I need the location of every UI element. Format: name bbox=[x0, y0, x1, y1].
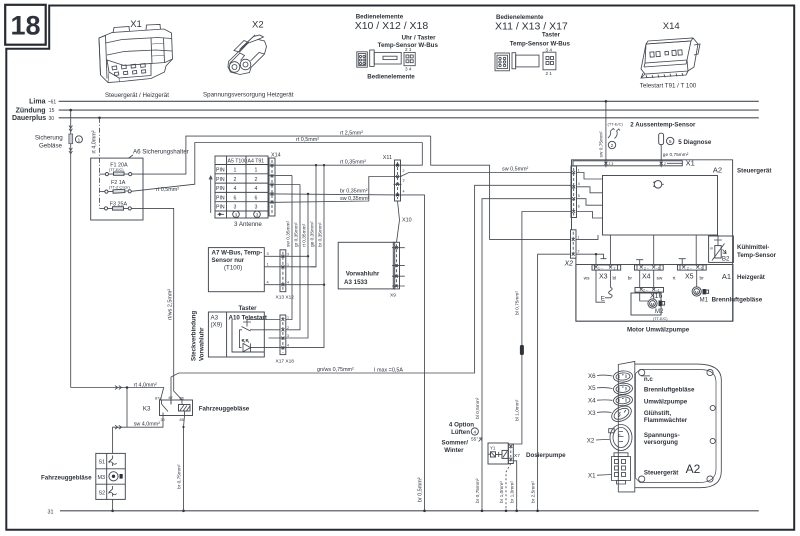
svg-text:X6: X6 bbox=[588, 373, 596, 380]
svg-text:Zündung: Zündung bbox=[16, 107, 46, 114]
svg-text:B2: B2 bbox=[722, 256, 730, 263]
svg-text:rt 4,0mm²: rt 4,0mm² bbox=[92, 130, 98, 153]
svg-text:18: 18 bbox=[10, 11, 40, 41]
svg-text:55°: 55° bbox=[471, 436, 478, 442]
svg-text:sw: sw bbox=[657, 276, 663, 281]
connector strip X1 horizontal on top of A2 bbox=[573, 161, 682, 166]
svg-text:Uhr / Taster: Uhr / Taster bbox=[402, 35, 437, 42]
glow plug E wiring bbox=[596, 270, 605, 302]
wire ge 0,75mm2 diagnose to X1 strip bbox=[660, 145, 662, 161]
wire F2 output rt 0,5mm2 diagonal, up and right bbox=[131, 143, 422, 192]
svg-text:(TT-E/C): (TT-E/C) bbox=[608, 121, 624, 126]
svg-text:1: 1 bbox=[578, 236, 580, 240]
wire relay 85 to ground bus br 0,75mm2 bbox=[184, 416, 185, 511]
svg-text:X11: X11 bbox=[383, 155, 392, 161]
svg-text:A2: A2 bbox=[686, 462, 701, 476]
svg-text:sw 4,0mm²: sw 4,0mm² bbox=[134, 421, 161, 427]
svg-text:br 0,35mm²: br 0,35mm² bbox=[340, 189, 368, 195]
svg-text:A1: A1 bbox=[722, 272, 731, 281]
svg-text:A7 W-Bus, Temp-: A7 W-Bus, Temp- bbox=[212, 250, 263, 257]
svg-text:3: 3 bbox=[287, 252, 289, 256]
svg-text:M2: M2 bbox=[655, 309, 664, 315]
buzzer symbol inside A2 bbox=[654, 181, 662, 189]
svg-text:2 Aussentemp-Sensor: 2 Aussentemp-Sensor bbox=[630, 121, 696, 128]
wire A7 pin3 to junction bbox=[264, 255, 308, 257]
svg-text:4: 4 bbox=[234, 186, 237, 192]
svg-text:rt 0,35mm²: rt 0,35mm² bbox=[301, 223, 307, 247]
junction X11 pin4 bbox=[396, 194, 398, 196]
fuse Sicherung Geblaese bbox=[69, 134, 73, 144]
svg-text:X10 / X12 / X18: X10 / X12 / X18 bbox=[355, 20, 429, 32]
svg-text:sw 0,35mm²: sw 0,35mm² bbox=[340, 196, 370, 202]
svg-text:4: 4 bbox=[287, 281, 289, 285]
svg-text:S2: S2 bbox=[99, 490, 106, 496]
svg-text:Kühlmittel-: Kühlmittel- bbox=[737, 244, 769, 251]
svg-text:(TT-E/C): (TT-E/C) bbox=[653, 317, 668, 321]
wire row3 sw 0,35mm2 to elbow up into X11 pin2 bbox=[276, 177, 398, 203]
wire sw 0,5mm2 from X11 pin2 to A2 X1 strip bbox=[401, 173, 572, 177]
svg-text:br 0,5mm²: br 0,5mm² bbox=[418, 477, 424, 502]
svg-text:Gebläse: Gebläse bbox=[39, 142, 63, 149]
internal wire X2 pin2 ground rail with stub bbox=[576, 254, 607, 259]
svg-text:3: 3 bbox=[287, 334, 289, 338]
connector strip X5 bbox=[678, 265, 707, 270]
connector X1 isometric drawing (Steuergeraet/Heizgeraet plug) bbox=[99, 25, 173, 83]
svg-text:rt 0,5mm²: rt 0,5mm² bbox=[156, 187, 179, 193]
svg-text:A3 1533: A3 1533 bbox=[344, 279, 368, 286]
svg-text:sw 0,5mm²: sw 0,5mm² bbox=[502, 166, 529, 172]
svg-text:A3: A3 bbox=[211, 315, 219, 322]
svg-text:PIN: PIN bbox=[216, 195, 225, 201]
svg-text:M: M bbox=[651, 302, 655, 307]
svg-text:3 4: 3 4 bbox=[546, 48, 553, 53]
internal elbow X2 pin1 to inner box bbox=[576, 235, 598, 239]
wire ground to X3 pin1 bbox=[595, 254, 597, 265]
wire slant X11 to X10 strip bbox=[397, 201, 400, 242]
heater box A1 bbox=[576, 265, 733, 322]
inline splice on bl wire bbox=[520, 345, 524, 355]
svg-text:n.c: n.c bbox=[644, 376, 653, 383]
wire A7 pin1 bbox=[264, 266, 316, 268]
relay contact bbox=[162, 400, 172, 416]
svg-text:Bedienelemente: Bedienelemente bbox=[367, 74, 415, 81]
wires inner box down to strips bbox=[609, 235, 611, 265]
svg-text:(T100): (T100) bbox=[224, 264, 242, 271]
wire option bl 0,5 / br 0,75 from A2 X1 down to ground bus bbox=[482, 199, 571, 511]
callout circle 5 bbox=[667, 137, 674, 144]
stub pin3 bbox=[269, 337, 286, 339]
svg-text:E: E bbox=[601, 296, 605, 303]
glow plug E symbol bbox=[605, 287, 612, 298]
Taster A10 Telestart box bbox=[208, 312, 264, 357]
svg-text:Taster: Taster bbox=[238, 305, 257, 312]
callout circle 4 bbox=[471, 428, 478, 435]
connector strip X2 vertical left side of A2 bbox=[571, 230, 577, 258]
connector X6 (n.c.) bbox=[613, 370, 633, 382]
svg-text:6: 6 bbox=[234, 195, 237, 201]
inner electronics box of A2 bbox=[603, 176, 718, 236]
svg-text:Fahrzeuggebläse: Fahrzeuggebläse bbox=[41, 475, 92, 482]
wire bundle v4 ge 0,35mm2 bbox=[311, 165, 316, 267]
X10/X12/X18 connector icons bbox=[357, 50, 415, 67]
relay coil bbox=[179, 405, 191, 412]
svg-text:3: 3 bbox=[234, 205, 237, 211]
relay K3 box bbox=[160, 400, 193, 416]
svg-text:~61: ~61 bbox=[48, 99, 57, 105]
wire sw 0,75mm2 down to A2 X1 strip bbox=[605, 101, 607, 161]
svg-text:Steuergerät / Heizgerät: Steuergerät / Heizgerät bbox=[105, 92, 169, 99]
svg-text:sw 0,75mm²: sw 0,75mm² bbox=[599, 131, 605, 158]
svg-text:2: 2 bbox=[234, 177, 237, 183]
callout circle 2 bbox=[608, 141, 615, 148]
X14 Telestart remote isometric drawing bbox=[641, 38, 700, 78]
wire rt 4,0mm2 from fan fuse to relay 87a bbox=[71, 388, 164, 400]
connector strip X4 bbox=[635, 265, 664, 270]
ground bus 31 bbox=[60, 510, 759, 512]
connector strip X7 bbox=[508, 444, 513, 464]
X11/X13/X17 connector icons bbox=[495, 52, 556, 71]
svg-text:3 Antenne: 3 Antenne bbox=[234, 221, 262, 228]
wire LED to pin4 bbox=[251, 347, 286, 349]
wire X7 alternative ground dashed br 1,0mm2 bbox=[506, 464, 511, 511]
svg-text:Lima: Lima bbox=[29, 99, 45, 106]
svg-text:Flammwächter: Flammwächter bbox=[644, 417, 688, 424]
pin table A5 T100 / A4 T91 bbox=[215, 156, 268, 218]
thermal switch S2 symbol bbox=[109, 486, 117, 497]
svg-text:Motor Umwälzpumpe: Motor Umwälzpumpe bbox=[627, 327, 690, 334]
connector strip X3 bbox=[592, 265, 621, 270]
wire rt 2,5mm2 corner down then right to A2 X2 pin1 bbox=[431, 136, 571, 239]
svg-text:gn/ws 0,75mm²: gn/ws 0,75mm² bbox=[317, 367, 354, 373]
node tap on Lima for Aussentemp sensor bbox=[605, 100, 608, 103]
pump motor M2 box bbox=[631, 293, 661, 315]
svg-text:br 0,35mm²: br 0,35mm² bbox=[317, 222, 323, 247]
fan motor M3 box bbox=[96, 453, 126, 499]
svg-text:ge 0,35mm²: ge 0,35mm² bbox=[309, 221, 315, 247]
antenna arrow in footer cell bbox=[218, 213, 225, 215]
svg-text:Brennluftgebläse: Brennluftgebläse bbox=[644, 386, 695, 393]
svg-text:Taster: Taster bbox=[542, 32, 561, 39]
svg-text:1: 1 bbox=[287, 316, 289, 320]
stub with T-bar above X5 bbox=[679, 259, 686, 265]
wire X7 pin2 to ground solid br 1,0mm2 bbox=[513, 461, 516, 511]
connector arrows below fuse bbox=[69, 148, 72, 154]
svg-text:2 3: 2 3 bbox=[609, 162, 614, 166]
svg-text:X14: X14 bbox=[271, 153, 281, 159]
svg-text:Sicherung: Sicherung bbox=[35, 134, 63, 141]
svg-text:n: n bbox=[619, 433, 621, 437]
svg-text:(TT-Z C=Gr): (TT-Z C=Gr) bbox=[109, 186, 131, 190]
svg-text:1: 1 bbox=[255, 168, 258, 174]
svg-text:X10: X10 bbox=[402, 218, 412, 224]
svg-text:rt 0,35mm²: rt 0,35mm² bbox=[340, 160, 366, 166]
internal elbow wires X1 strip to inner box bbox=[577, 173, 603, 180]
svg-text:M1: M1 bbox=[700, 298, 709, 304]
wire M3 to ground bus bbox=[112, 499, 114, 510]
svg-text:–1: –1 bbox=[656, 266, 660, 270]
svg-text:(TT-E/C): (TT-E/C) bbox=[109, 168, 124, 172]
svg-text:2: 2 bbox=[403, 169, 405, 173]
svg-text:Steuergerät: Steuergerät bbox=[644, 469, 678, 476]
svg-text:X13 X12: X13 X12 bbox=[276, 295, 295, 301]
svg-text:X4: X4 bbox=[588, 398, 596, 405]
svg-text:30: 30 bbox=[49, 116, 55, 122]
wire rt 4,0mm2 dash-dot from Dauerplus to fuse holder bbox=[99, 118, 101, 209]
X11 pins bbox=[394, 164, 402, 197]
switch (Taster) symbol bbox=[242, 320, 281, 332]
junction on rt 4,0 line bbox=[126, 386, 129, 389]
svg-text:85: 85 bbox=[180, 418, 184, 422]
LED diode symbol bbox=[243, 343, 251, 351]
wire rt 0,5mm2 doubling back into X11 pin1 bbox=[401, 143, 423, 166]
svg-text:A2: A2 bbox=[713, 165, 722, 174]
svg-text:4: 4 bbox=[578, 182, 580, 186]
svg-text:5: 5 bbox=[669, 139, 672, 145]
svg-text:m: m bbox=[710, 247, 713, 251]
svg-text:bl 1,0mm²: bl 1,0mm² bbox=[515, 399, 521, 421]
wire row1 rt 0,35mm2 from X14 strip to X11 pin1 bbox=[276, 164, 398, 166]
svg-text:3: 3 bbox=[256, 212, 259, 217]
control unit A2 box bbox=[572, 160, 733, 321]
wire B2 to inner box bbox=[714, 235, 722, 240]
fuse holder A6 box bbox=[91, 158, 143, 220]
dosing pump Y1 box bbox=[488, 443, 508, 464]
node tap on Zuendung for fan fuse bbox=[69, 109, 72, 112]
svg-text:4: 4 bbox=[473, 430, 476, 436]
bundle junction v5 on row1 bbox=[323, 164, 325, 166]
svg-text:X17 X18: X17 X18 bbox=[276, 359, 295, 365]
svg-text:br 1,0mm²: br 1,0mm² bbox=[499, 481, 505, 503]
svg-text:PIN: PIN bbox=[216, 168, 225, 174]
svg-text:sw 0,35mm²: sw 0,35mm² bbox=[285, 220, 291, 247]
svg-text:A10 Telestart: A10 Telestart bbox=[229, 315, 267, 322]
connector strip X1 vertical left side of A2 bbox=[571, 166, 577, 218]
svg-text:2 –: 2 – bbox=[687, 266, 692, 270]
svg-text:ge 0,75mm²: ge 0,75mm² bbox=[663, 152, 689, 158]
arrow left of table bbox=[209, 176, 212, 213]
svg-text:1: 1 bbox=[578, 169, 580, 173]
svg-text:2: 2 bbox=[614, 266, 616, 270]
wire to LED bbox=[240, 330, 243, 348]
node tap on Dauerplus for A6 bbox=[98, 117, 101, 120]
svg-text:Temp-Sensor: Temp-Sensor bbox=[737, 252, 777, 259]
svg-text:gr 0,35mm²: gr 0,35mm² bbox=[293, 222, 299, 247]
svg-text:X2: X2 bbox=[587, 437, 595, 444]
connector X1b bbox=[612, 453, 631, 484]
svg-text:6: 6 bbox=[255, 195, 258, 201]
stub with T-bar above X4 bbox=[636, 260, 643, 265]
svg-text:3: 3 bbox=[235, 212, 238, 217]
svg-text:2: 2 bbox=[578, 250, 580, 254]
Aussentemp sensor symbol bbox=[608, 128, 619, 138]
wire fan fuse drop bbox=[70, 110, 72, 134]
svg-text:A6 Sicherungshalter: A6 Sicherungshalter bbox=[133, 149, 189, 156]
bus wire Zuendung (15) bbox=[59, 109, 759, 111]
svg-text:Sommer/: Sommer/ bbox=[442, 440, 469, 447]
svg-text:2 1: 2 1 bbox=[405, 47, 412, 52]
svg-text:br: br bbox=[700, 275, 705, 281]
svg-text:PIN: PIN bbox=[216, 205, 225, 211]
svg-text:X4: X4 bbox=[642, 273, 651, 280]
svg-text:PIN: PIN bbox=[216, 177, 225, 183]
svg-text:3: 3 bbox=[403, 179, 405, 183]
svg-text:2 –: 2 – bbox=[643, 288, 648, 292]
wire row2 to bundle v1 bbox=[276, 175, 292, 177]
svg-text:1: 1 bbox=[78, 137, 81, 142]
svg-text:X2: X2 bbox=[252, 20, 264, 31]
svg-text:1: 1 bbox=[267, 263, 269, 267]
svg-text:bl 0,75mm²: bl 0,75mm² bbox=[515, 291, 521, 315]
svg-text:3: 3 bbox=[255, 205, 258, 211]
wire gn/ws 0,75mm2 from relay K3 pin87 to A2 X1 bbox=[171, 185, 571, 399]
blower motor M1 bbox=[696, 270, 698, 287]
svg-text:4: 4 bbox=[403, 190, 405, 194]
svg-text:br: br bbox=[628, 275, 633, 281]
svg-text:2 –: 2 – bbox=[644, 266, 649, 270]
svg-text:A5 T100: A5 T100 bbox=[228, 159, 248, 165]
svg-text:X5: X5 bbox=[685, 273, 694, 280]
svg-text:K3: K3 bbox=[143, 405, 151, 412]
svg-text:4: 4 bbox=[287, 344, 289, 348]
svg-text:X9: X9 bbox=[390, 292, 396, 298]
wire below fan fuse bbox=[70, 144, 72, 388]
wire bundle v1 sw 0,35mm2 bbox=[286, 176, 292, 320]
wire row6 br 0,35mm2 to X11 pin4 bbox=[276, 194, 398, 195]
svg-text:86: 86 bbox=[180, 396, 184, 400]
connector X2 isometric drawing (2-pin supply plug) bbox=[228, 35, 267, 75]
svg-text:5: 5 bbox=[578, 194, 580, 198]
wire bundle v2 gr 0,35mm2 bbox=[286, 185, 300, 330]
svg-text:S1: S1 bbox=[99, 460, 106, 466]
svg-text:br 2,5mm²: br 2,5mm² bbox=[530, 481, 536, 503]
svg-text:ws: ws bbox=[584, 276, 590, 281]
svg-text:2: 2 bbox=[287, 326, 289, 330]
svg-text:1: 1 bbox=[287, 263, 289, 267]
svg-text:br 0,75mm²: br 0,75mm² bbox=[475, 478, 481, 503]
svg-text:X7: X7 bbox=[514, 453, 520, 459]
svg-text:4: 4 bbox=[255, 186, 258, 192]
svg-text:X1: X1 bbox=[588, 473, 596, 480]
svg-text:Dauerplus: Dauerplus bbox=[12, 115, 46, 122]
svg-text:1: 1 bbox=[234, 168, 237, 174]
junction X11 pin1 bbox=[396, 164, 398, 166]
svg-text:2: 2 bbox=[611, 143, 614, 149]
svg-text:15: 15 bbox=[49, 108, 55, 114]
svg-text:br 0,75mm²: br 0,75mm² bbox=[176, 464, 182, 489]
connector strip X16 bbox=[635, 288, 664, 293]
svg-text:M: M bbox=[695, 290, 699, 295]
svg-text:I max =0,5A: I max =0,5A bbox=[374, 368, 403, 374]
svg-text:M3: M3 bbox=[98, 475, 106, 481]
svg-text:X1: X1 bbox=[130, 19, 142, 30]
thermal switch S1 symbol bbox=[109, 456, 117, 467]
antenna row circled 3 marks bbox=[233, 211, 240, 218]
svg-text:Steckverbindung: Steckverbindung bbox=[191, 311, 198, 361]
wire bundle v3 rt 0,35mm2 bbox=[286, 194, 308, 338]
connector strip X13/X12 bbox=[280, 250, 286, 292]
svg-text:X2: X2 bbox=[564, 261, 574, 268]
connector X3b bbox=[609, 403, 634, 425]
svg-text:rt 2,5mm²: rt 2,5mm² bbox=[340, 131, 363, 137]
svg-text:Telestart T91 / T 100: Telestart T91 / T 100 bbox=[640, 83, 697, 90]
wires X4 down to X16 bbox=[639, 270, 641, 287]
svg-text:87: 87 bbox=[169, 396, 173, 400]
wire F1 output rt 2,5mm2 going up and right bbox=[132, 136, 431, 174]
svg-text:3: 3 bbox=[267, 252, 269, 256]
svg-text:Temp-Sensor W-Bus: Temp-Sensor W-Bus bbox=[510, 40, 571, 47]
connector X4b bbox=[613, 394, 633, 406]
connector arrows on fan fuse wire bbox=[69, 126, 72, 132]
wire X11 pin4 to ground drop br 0,5mm2 bbox=[401, 195, 425, 511]
svg-text:bl: bl bbox=[613, 275, 617, 281]
svg-text:Sensor nur: Sensor nur bbox=[212, 257, 245, 264]
sheet number box 18 bbox=[5, 5, 46, 45]
module A7 W-Bus Temp-Sensor box bbox=[208, 248, 264, 292]
svg-text:X1: X1 bbox=[686, 159, 695, 168]
pump element bbox=[491, 452, 496, 457]
svg-text:A4 T91: A4 T91 bbox=[248, 159, 265, 165]
coolant sensor B2 box bbox=[709, 236, 734, 262]
svg-text:Spannungsversorgung Heizgerät: Spannungsversorgung Heizgerät bbox=[203, 92, 294, 99]
svg-text:Dosierpumpe: Dosierpumpe bbox=[526, 452, 566, 459]
svg-text:rt/ws 2,5mm²: rt/ws 2,5mm² bbox=[168, 289, 174, 320]
X14 strip pins bbox=[268, 164, 276, 204]
svg-text:X3: X3 bbox=[599, 273, 608, 280]
svg-text:(X9): (X9) bbox=[211, 322, 223, 329]
svg-text:Vorwahluhr: Vorwahluhr bbox=[199, 327, 206, 361]
connector strip X17/X18 bbox=[280, 315, 286, 355]
svg-text:X3: X3 bbox=[588, 410, 596, 417]
svg-text:Brennluftgebläse: Brennluftgebläse bbox=[712, 297, 763, 304]
svg-text:4: 4 bbox=[267, 280, 269, 284]
svg-text:2: 2 bbox=[664, 162, 666, 166]
svg-text:Umwälzpumpe: Umwälzpumpe bbox=[644, 399, 688, 406]
svg-text:1 –: 1 – bbox=[598, 266, 603, 270]
svg-text:X14: X14 bbox=[663, 21, 680, 32]
svg-text:31: 31 bbox=[48, 510, 54, 516]
svg-text:Vorwahluhr: Vorwahluhr bbox=[346, 271, 380, 278]
svg-text:2 1: 2 1 bbox=[546, 71, 553, 76]
wire br 2,5mm2 ground from A2 X2 pin2 to bus bbox=[538, 254, 571, 511]
svg-text:–1: –1 bbox=[656, 288, 660, 292]
wire row4 to bundle v2 bbox=[276, 184, 300, 186]
wire F3 output rt/ws 2,5mm2 down to relay K3 bbox=[131, 208, 182, 399]
wire bl 0,75mm2 / bl 1,0mm2 from A2 X1 to dosing pump X7 bbox=[513, 212, 571, 445]
callout circle 1 bbox=[75, 136, 82, 143]
svg-text:Winter: Winter bbox=[444, 447, 464, 454]
wire bundle v5 br 0,35mm2 bbox=[286, 165, 324, 347]
connector strip X9/X10 bbox=[393, 242, 399, 289]
svg-text:Heizgerät: Heizgerät bbox=[737, 274, 765, 281]
svg-text:rt 4,0mm²: rt 4,0mm² bbox=[134, 382, 157, 388]
wire sw 4,0mm2 from relay 30 to fan motor bbox=[113, 416, 163, 454]
connector strip X11 bbox=[395, 160, 401, 201]
svg-text:Steuergerät: Steuergerät bbox=[737, 168, 771, 175]
svg-text:Fahrzeuggebläse: Fahrzeuggebläse bbox=[199, 406, 250, 413]
motor M3 symbol bbox=[109, 472, 118, 481]
bus junction dots bbox=[111, 510, 114, 513]
wire A7 pin4 bbox=[264, 284, 324, 286]
module Vorwahluhr A3 1533 box bbox=[338, 242, 395, 289]
svg-text:87a: 87a bbox=[155, 396, 162, 400]
bundle junction v4 on row1 bbox=[315, 164, 317, 166]
svg-text:PIN: PIN bbox=[216, 186, 225, 192]
svg-text:6: 6 bbox=[578, 205, 580, 209]
svg-text:br 1,0mm²: br 1,0mm² bbox=[510, 481, 516, 503]
A2 connector block (heater unit rear view) bbox=[618, 361, 721, 492]
diagnose connector symbol bbox=[659, 133, 664, 144]
svg-text:2: 2 bbox=[255, 177, 258, 183]
